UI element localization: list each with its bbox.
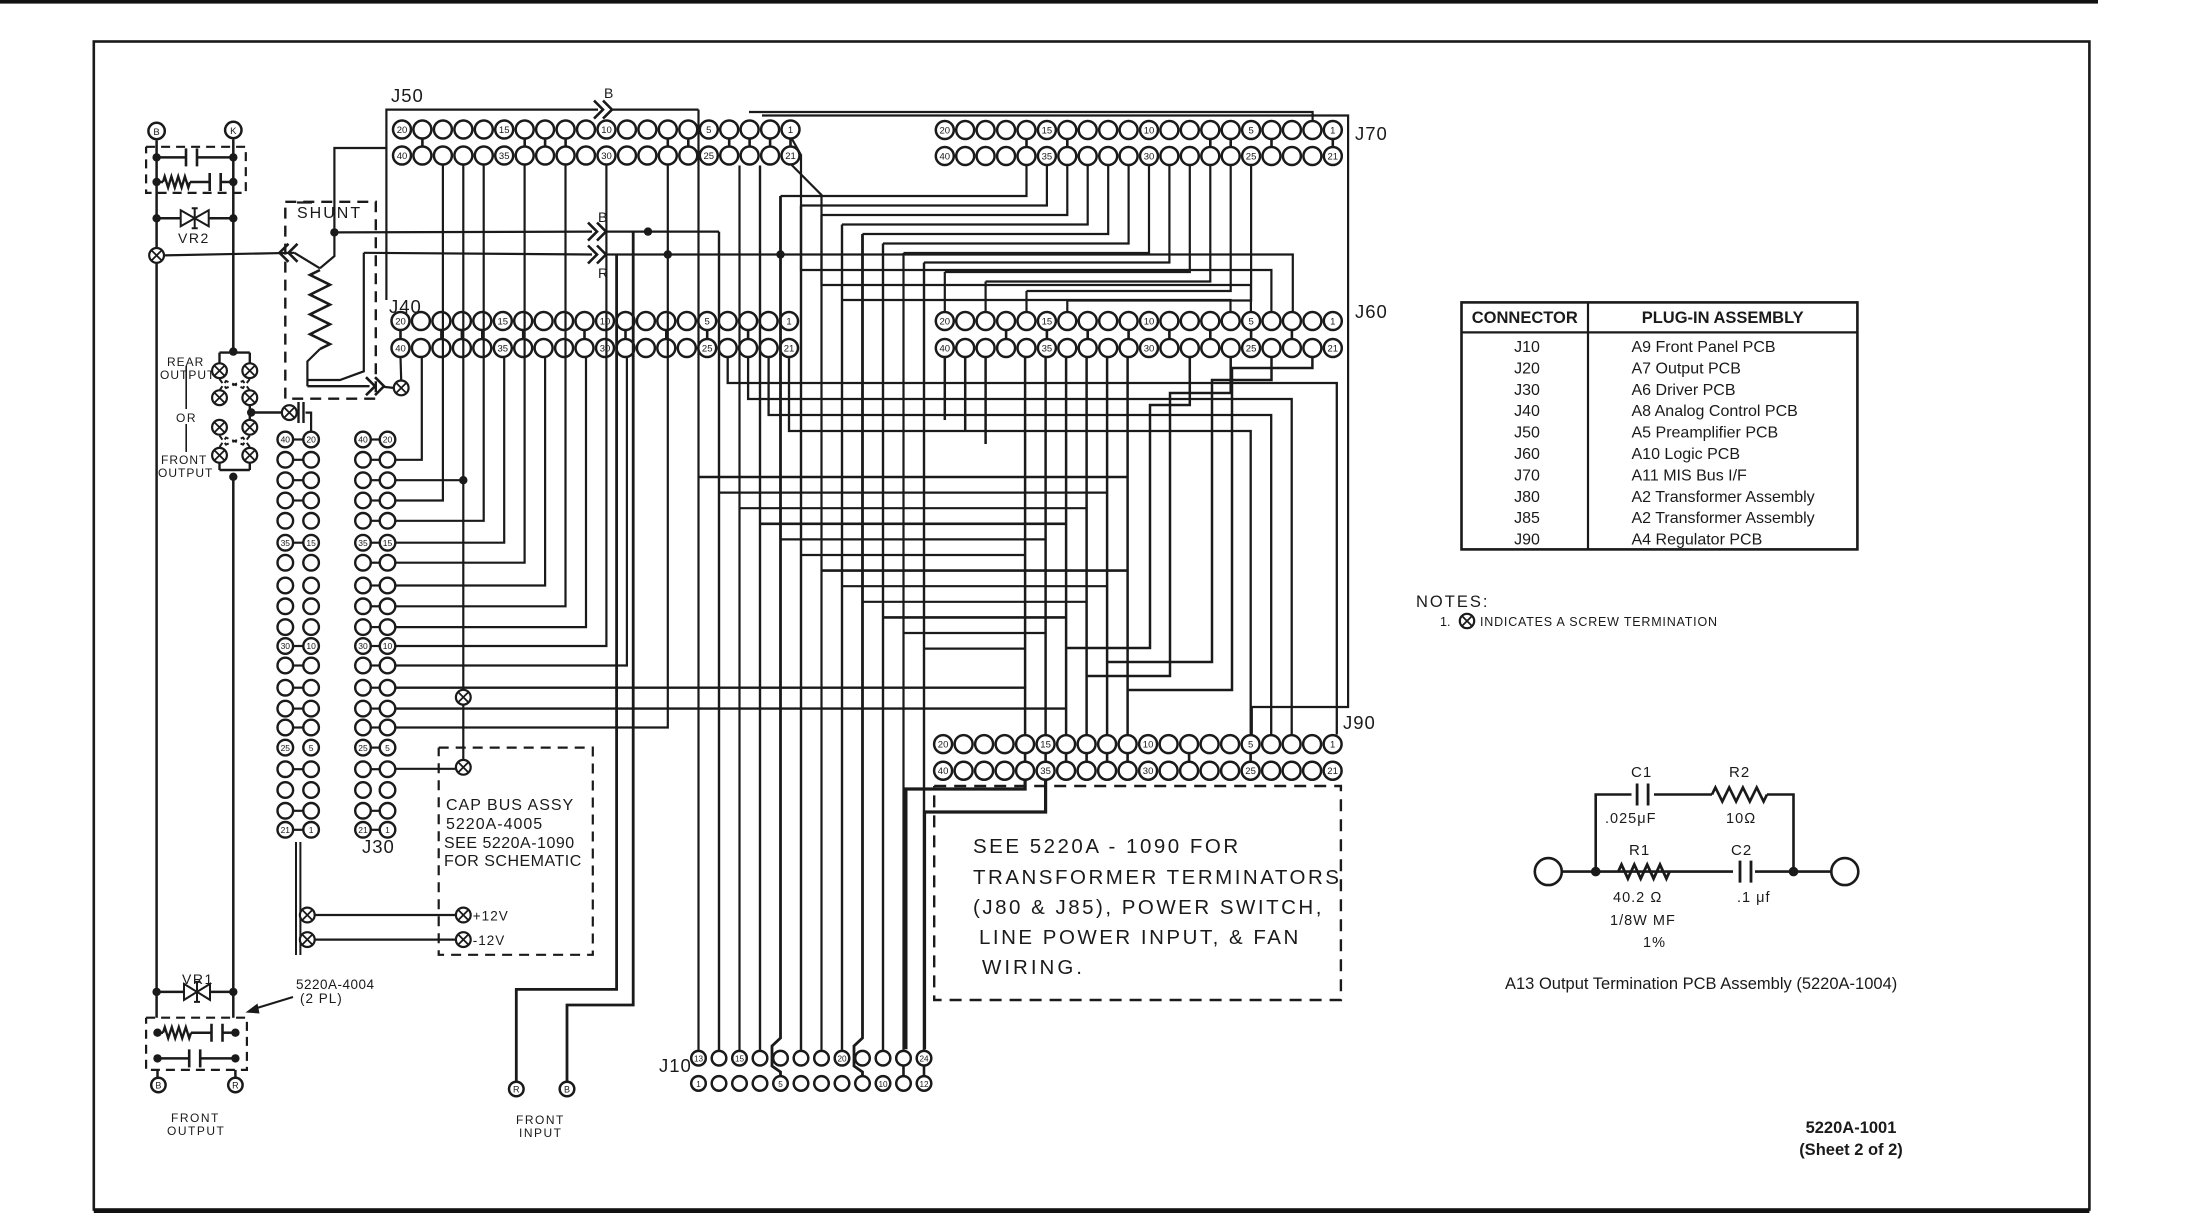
- connector J30 label: [362, 836, 395, 857]
- wire A13 branch up: [1596, 795, 1794, 872]
- screw +12V left: [300, 908, 315, 923]
- shunt box: [285, 202, 376, 399]
- svg-text:A9 Front Panel PCB: A9 Front Panel PCB: [1632, 339, 1776, 356]
- svg-text:30: 30: [601, 151, 612, 162]
- svg-text:SEE 5220A-1090: SEE 5220A-1090: [444, 835, 575, 852]
- node front bracket bottom: [220, 463, 250, 481]
- resistor+capacitor front: [153, 1024, 239, 1042]
- label +12V: [473, 909, 509, 924]
- resistor R2: [1712, 764, 1767, 802]
- svg-text:INPUT: INPUT: [519, 1126, 563, 1140]
- svg-text:5: 5: [1248, 316, 1253, 327]
- wire -12V: [315, 938, 456, 940]
- svg-text:5: 5: [1248, 740, 1253, 751]
- wire R to shunt: [164, 244, 320, 268]
- svg-text:15: 15: [383, 538, 393, 548]
- wire bundle staircase to J90: [699, 357, 1128, 734]
- svg-text:CONNECTOR: CONNECTOR: [1472, 309, 1578, 327]
- transformer note box: [934, 786, 1341, 1000]
- svg-text:20: 20: [306, 435, 316, 445]
- svg-text:J90: J90: [1514, 532, 1540, 549]
- svg-text:5: 5: [385, 743, 390, 753]
- svg-text:15: 15: [1042, 125, 1053, 136]
- svg-text:OUTPUT: OUTPUT: [160, 368, 215, 382]
- svg-text:1: 1: [1330, 125, 1335, 136]
- svg-text:FRONT: FRONT: [171, 1111, 220, 1125]
- wire R arrow long line: [364, 246, 1293, 312]
- svg-text:5: 5: [778, 1080, 783, 1089]
- label NOTES: [1416, 593, 1489, 611]
- svg-text:(Sheet 2 of 2): (Sheet 2 of 2): [1799, 1141, 1903, 1159]
- lamp front 4: [242, 448, 257, 463]
- svg-text:B: B: [564, 1085, 570, 1095]
- label REAR OUTPUT: [160, 355, 215, 382]
- svg-text:20: 20: [938, 740, 949, 751]
- svg-text:35: 35: [1042, 343, 1053, 354]
- svg-text:25: 25: [1245, 766, 1256, 777]
- svg-text:A10 Logic PCB: A10 Logic PCB: [1632, 446, 1741, 463]
- svg-text:-12V: -12V: [473, 933, 506, 948]
- wire bundle J70 to center: [781, 166, 1252, 312]
- terminal R bottom: [228, 1078, 242, 1092]
- connector J90 label: [1343, 712, 1376, 733]
- svg-text:OUTPUT: OUTPUT: [167, 1124, 225, 1138]
- svg-text:(2 PL): (2 PL): [300, 991, 343, 1006]
- connector J60: [936, 312, 1342, 357]
- svg-text:FOR SCHEMATIC: FOR SCHEMATIC: [444, 853, 582, 870]
- label 10ohm: [1726, 811, 1756, 827]
- svg-text:15: 15: [735, 1055, 745, 1064]
- terminal right A13: [1831, 858, 1858, 885]
- svg-text:OUTPUT: OUTPUT: [158, 466, 213, 480]
- wire stub to B bottom: [156, 1070, 159, 1078]
- shunt inner return wire: [307, 253, 363, 380]
- svg-text:1%: 1%: [1643, 935, 1666, 951]
- wire J90 to J10 col10: [925, 780, 1046, 1049]
- svg-text:A7 Output PCB: A7 Output PCB: [1632, 360, 1741, 377]
- svg-text:J50: J50: [1514, 425, 1540, 442]
- wire stub to R bottom: [234, 1070, 237, 1078]
- svg-text:15: 15: [306, 538, 316, 548]
- svg-text:40: 40: [940, 343, 951, 354]
- svg-text:A2 Transformer Assembly: A2 Transformer Assembly: [1632, 489, 1815, 506]
- svg-text:5: 5: [309, 743, 314, 753]
- wire front input B riser: [567, 232, 633, 1082]
- svg-text:5220A-4005: 5220A-4005: [446, 816, 543, 833]
- svg-text:10Ω: 10Ω: [1726, 811, 1756, 827]
- connector J50: [393, 121, 800, 165]
- wire J50 pin1 to J60: [792, 139, 1272, 312]
- svg-text:35: 35: [281, 538, 291, 548]
- connector J90: [934, 735, 1342, 780]
- label FRONT OUTPUT upper: [158, 453, 213, 480]
- svg-text:A13 Output Termination PCB Ass: A13 Output Termination PCB Assembly (522…: [1505, 975, 1897, 993]
- wire J30 to cap bus vertical: [395, 165, 467, 691]
- terminal B top: [148, 123, 164, 139]
- svg-text:SHUNT: SHUNT: [297, 205, 362, 222]
- svg-text:J40: J40: [1514, 403, 1540, 420]
- wire J40 pin40 to screw: [399, 357, 402, 381]
- svg-text:21: 21: [1328, 151, 1339, 162]
- svg-text:10: 10: [878, 1080, 888, 1089]
- svg-text:B: B: [153, 127, 159, 138]
- capacitor C1: [1631, 764, 1652, 806]
- svg-text:R: R: [232, 1081, 239, 1091]
- lamp rear 4: [242, 390, 257, 405]
- svg-text:A4 Regulator PCB: A4 Regulator PCB: [1632, 532, 1763, 549]
- svg-text:21: 21: [358, 825, 368, 835]
- shunt resistor: [307, 270, 330, 386]
- lamp front 2: [242, 420, 257, 435]
- svg-text:40: 40: [395, 343, 406, 354]
- label 1/8W MF: [1610, 913, 1676, 929]
- label SHUNT: [297, 203, 362, 223]
- wire J90 to J10 col11: [906, 780, 1025, 1049]
- wire bundle center columns: [699, 110, 925, 1077]
- svg-text:10: 10: [383, 641, 393, 651]
- lamp rear 3: [212, 390, 227, 405]
- svg-text:15: 15: [499, 125, 510, 136]
- svg-text:40: 40: [281, 435, 291, 445]
- svg-text:15: 15: [1040, 740, 1051, 751]
- wire B junction to shunt: [320, 228, 339, 268]
- svg-text:10: 10: [600, 316, 611, 327]
- svg-text:B: B: [604, 85, 613, 101]
- svg-text:J70: J70: [1355, 123, 1388, 144]
- svg-text:J60: J60: [1514, 446, 1540, 463]
- svg-text:FRONT: FRONT: [161, 453, 207, 467]
- terminal B bottom: [151, 1078, 165, 1092]
- svg-text:10: 10: [601, 125, 612, 136]
- svg-text:WIRING.: WIRING.: [982, 956, 1085, 979]
- svg-text:30: 30: [1144, 151, 1155, 162]
- connector J10 label: [659, 1055, 692, 1076]
- label VR2: [178, 230, 210, 246]
- svg-text:INDICATES A SCREW TERMINATI: INDICATES A SCREW TERMINATION: [1480, 615, 1718, 629]
- svg-text:TRANSFORMER TERMINATORS: TRANSFORMER TERMINATORS: [973, 866, 1341, 889]
- svg-text:35: 35: [1040, 766, 1051, 777]
- screw cap bus upper: [456, 690, 471, 705]
- table connector assembly: [1462, 302, 1858, 549]
- svg-text:24: 24: [919, 1055, 929, 1064]
- svg-text:A2 Transformer Assembly: A2 Transformer Assembly: [1632, 510, 1815, 527]
- svg-text:21: 21: [1327, 766, 1338, 777]
- capacitor C2: [1733, 860, 1755, 884]
- svg-text:25: 25: [702, 343, 713, 354]
- svg-text:J90: J90: [1343, 712, 1376, 733]
- svg-text:LINE POWER INPUT, & FAN: LINE POWER INPUT, & FAN: [979, 926, 1301, 949]
- svg-text:25: 25: [1246, 151, 1257, 162]
- svg-text:1: 1: [1330, 316, 1335, 327]
- label 1pct: [1643, 935, 1666, 951]
- svg-text:1: 1: [385, 825, 390, 835]
- screw +12V right: [456, 908, 471, 923]
- svg-text:40.2 Ω: 40.2 Ω: [1613, 890, 1662, 906]
- lamp front 1: [212, 420, 227, 435]
- svg-text:J20: J20: [1514, 360, 1540, 377]
- svg-text:5: 5: [706, 125, 711, 136]
- svg-text:J50: J50: [391, 85, 424, 106]
- wire lamp dashed front: [220, 436, 250, 447]
- svg-text:30: 30: [358, 641, 368, 651]
- svg-text:25: 25: [704, 151, 715, 162]
- wire front input R riser: [516, 255, 616, 1082]
- svg-text:13: 13: [694, 1055, 704, 1064]
- svg-text:(J80 & J85), POWER SWITCH,: (J80 & J85), POWER SWITCH,: [973, 896, 1324, 919]
- svg-text:21: 21: [281, 825, 291, 835]
- svg-text:C2: C2: [1731, 842, 1752, 859]
- svg-text:A5 Preamplifier PCB: A5 Preamplifier PCB: [1632, 425, 1779, 442]
- wire J30 row right a: [395, 768, 456, 770]
- cap bus assy box: [439, 748, 593, 955]
- terminal B front input: [560, 1082, 575, 1097]
- svg-text:21: 21: [1328, 343, 1339, 354]
- svg-text:10: 10: [306, 641, 316, 651]
- screw termination left: [149, 248, 164, 263]
- label FRONT INPUT: [516, 1113, 565, 1140]
- svg-text:15: 15: [498, 316, 509, 327]
- svg-text:30: 30: [600, 343, 611, 354]
- wire +12V: [315, 914, 456, 916]
- svg-text:40: 40: [397, 151, 408, 162]
- screw with capacitor: [282, 402, 304, 423]
- label OR: [176, 366, 197, 452]
- svg-text:A11 MIS Bus I/F: A11 MIS Bus I/F: [1632, 467, 1748, 484]
- svg-text:21: 21: [785, 151, 796, 162]
- wire to screw cap: [247, 405, 282, 417]
- svg-text:1: 1: [309, 825, 314, 835]
- svg-text:5: 5: [705, 316, 710, 327]
- svg-text:C1: C1: [1631, 764, 1652, 781]
- svg-text:.1 μf: .1 μf: [1737, 890, 1771, 906]
- lamp rear 2: [242, 363, 257, 378]
- svg-text:B: B: [155, 1081, 161, 1091]
- node rear bracket: [220, 347, 250, 363]
- svg-text:K: K: [230, 126, 237, 137]
- svg-text:30: 30: [281, 641, 291, 651]
- note 1: [1440, 614, 1718, 629]
- label VR1: [182, 971, 214, 987]
- svg-text:A6 Driver PCB: A6 Driver PCB: [1632, 382, 1736, 399]
- connector J40 label: [389, 296, 422, 317]
- resistor+capacitor rear: [152, 173, 237, 191]
- svg-text:J30: J30: [362, 836, 395, 857]
- svg-text:40: 40: [940, 151, 951, 162]
- svg-text:10: 10: [1143, 740, 1154, 751]
- screw cap bus lower: [456, 760, 471, 775]
- svg-text:FRONT: FRONT: [516, 1113, 565, 1127]
- wire left column K: [232, 140, 235, 1018]
- wire cap to J30 pin20: [306, 413, 312, 432]
- svg-text:VR2: VR2: [178, 230, 210, 246]
- terminal R front input: [509, 1082, 524, 1097]
- wire J30 long row to J90 area b: [395, 707, 1065, 709]
- svg-text:10: 10: [1144, 316, 1155, 327]
- svg-text:R1: R1: [1629, 842, 1650, 859]
- wire left column B: [155, 141, 158, 1018]
- svg-text:OR: OR: [176, 411, 197, 425]
- wire B arrow mid line: [334, 209, 719, 241]
- svg-text:J30: J30: [1514, 382, 1540, 399]
- front termination network box: [146, 1018, 247, 1070]
- wire J50 pin21 to J60: [792, 165, 1251, 312]
- label R1: [1629, 842, 1650, 859]
- wire top line to J70: [749, 112, 1313, 121]
- wire bundle J30 fan to J40/J50: [395, 165, 668, 728]
- svg-text:+12V: +12V: [473, 909, 509, 924]
- svg-text:30: 30: [1143, 766, 1154, 777]
- svg-text:J10: J10: [1514, 339, 1540, 356]
- scan edge mark top: [0, 0, 2098, 4]
- connector J10: [691, 1051, 931, 1091]
- svg-text:CAP BUS ASSY: CAP BUS ASSY: [446, 797, 574, 814]
- connector J30: [278, 432, 396, 838]
- svg-text:20: 20: [837, 1055, 847, 1064]
- svg-text:PLUG-IN ASSEMBLY: PLUG-IN ASSEMBLY: [1642, 309, 1804, 327]
- rear termination network box: [146, 147, 246, 193]
- wire lamp dashed rear: [220, 379, 250, 390]
- svg-text:1/8W MF: 1/8W MF: [1610, 913, 1676, 929]
- shunt output wire: [307, 377, 393, 395]
- svg-text:1: 1: [788, 125, 793, 136]
- svg-text:30: 30: [1144, 343, 1155, 354]
- svg-text:1: 1: [696, 1080, 701, 1089]
- svg-text:20: 20: [383, 435, 393, 445]
- lamp rear 1: [212, 363, 227, 378]
- screw termination shunt out: [394, 381, 409, 396]
- svg-text:15: 15: [1042, 316, 1053, 327]
- wire top line outer: [762, 116, 1348, 735]
- connector J60 label: [1355, 301, 1388, 322]
- terminal left A13: [1535, 858, 1562, 885]
- wire J50 top border with B arrow: [386, 85, 698, 300]
- screw -12V left: [300, 932, 315, 947]
- svg-text:J60: J60: [1355, 301, 1388, 322]
- svg-text:R2: R2: [1729, 764, 1750, 781]
- connector J70 label: [1355, 123, 1388, 144]
- caption A13: [1505, 975, 1897, 993]
- svg-text:20: 20: [397, 125, 408, 136]
- callout 5220A-4004: [246, 977, 375, 1014]
- svg-text:25: 25: [1246, 343, 1257, 354]
- wire A13 main: [1562, 867, 1832, 877]
- svg-text:25: 25: [281, 743, 291, 753]
- connector J70: [936, 121, 1342, 165]
- svg-text:1: 1: [1330, 740, 1335, 751]
- label C2: [1731, 842, 1752, 859]
- svg-text:NOTES:: NOTES:: [1416, 593, 1489, 611]
- svg-text:20: 20: [395, 316, 406, 327]
- svg-text:35: 35: [498, 343, 509, 354]
- svg-text:1.: 1.: [1440, 615, 1450, 629]
- svg-text:5220A-4004: 5220A-4004: [296, 977, 375, 992]
- label transformer note: [973, 835, 1341, 979]
- label FRONT OUTPUT lower: [167, 1111, 225, 1138]
- capacitor rear C-a: [152, 148, 237, 166]
- svg-text:.025μF: .025μF: [1605, 811, 1656, 827]
- svg-text:J70: J70: [1514, 467, 1540, 484]
- wire cap bus screws: [462, 705, 464, 760]
- svg-text:J10: J10: [659, 1055, 692, 1076]
- svg-text:35: 35: [358, 538, 368, 548]
- connector J40: [392, 312, 799, 357]
- svg-text:A8 Analog Control PCB: A8 Analog Control PCB: [1632, 403, 1798, 420]
- screw -12V right: [456, 932, 471, 947]
- wire center col7 to J60: [842, 300, 1231, 312]
- svg-text:40: 40: [938, 766, 949, 777]
- wire bundle J40 right to J90 right: [728, 357, 1337, 735]
- zener VR2: [152, 208, 237, 228]
- svg-text:35: 35: [499, 151, 510, 162]
- svg-text:20: 20: [940, 125, 951, 136]
- J30 bus double line: [296, 842, 300, 955]
- label CAP BUS ASSY: [444, 797, 582, 870]
- svg-text:21: 21: [784, 343, 795, 354]
- label .1uf: [1737, 890, 1771, 906]
- resistor R1: [1618, 865, 1669, 879]
- wire J30 long row to J90 area a: [395, 687, 1026, 689]
- label 40.2ohm: [1613, 890, 1662, 906]
- svg-text:5220A-1001: 5220A-1001: [1806, 1119, 1897, 1137]
- wire bundle J60 bottom drops: [945, 357, 986, 444]
- lamp front 3: [212, 448, 227, 463]
- svg-text:J80: J80: [1514, 489, 1540, 506]
- connector J50 label: [391, 85, 424, 106]
- svg-text:5: 5: [1248, 125, 1253, 136]
- svg-text:J85: J85: [1514, 510, 1540, 527]
- wire shunt top to J50 border: [334, 148, 386, 232]
- svg-text:25: 25: [358, 743, 368, 753]
- svg-text:35: 35: [1042, 151, 1053, 162]
- sheet number: [1799, 1119, 1903, 1159]
- svg-text:1: 1: [786, 316, 791, 327]
- capacitor front: [153, 1049, 239, 1067]
- label .025uF: [1605, 811, 1656, 827]
- svg-text:20: 20: [940, 316, 951, 327]
- label -12V: [473, 933, 506, 948]
- wire lamp link mid: [249, 413, 251, 421]
- svg-text:R: R: [513, 1085, 520, 1095]
- svg-text:SEE 5220A - 1090 FOR: SEE 5220A - 1090 FOR: [973, 835, 1241, 858]
- svg-text:12: 12: [919, 1080, 929, 1089]
- svg-text:10: 10: [1144, 125, 1155, 136]
- zener VR1: [152, 982, 237, 1002]
- terminal K top: [225, 122, 241, 138]
- svg-text:40: 40: [358, 435, 368, 445]
- wire bundle J60 right to J90 area: [1067, 357, 1312, 690]
